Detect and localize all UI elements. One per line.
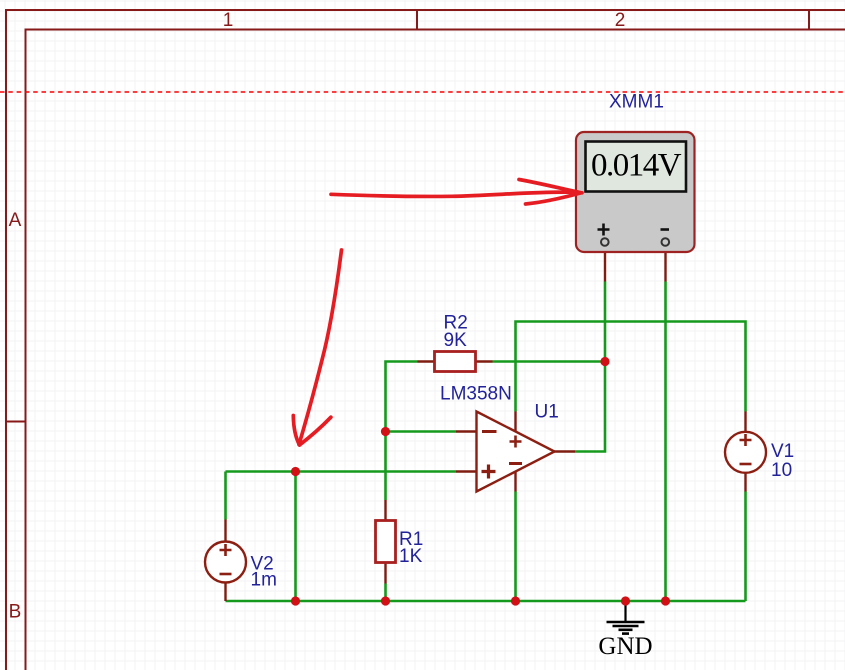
V2 minus mark bbox=[220, 573, 232, 576]
wire: bottom ground rail bbox=[226, 600, 746, 603]
wire: op-amp output up to junction bbox=[575, 362, 605, 452]
junction dots bbox=[291, 357, 670, 606]
pin: multimeter - lead bbox=[664, 246, 666, 282]
svg-text:V1: V1 bbox=[771, 441, 794, 462]
wire: inverting input horizontal bbox=[386, 430, 457, 433]
junction: non-inverting node bbox=[291, 467, 300, 476]
svg-text:1m: 1m bbox=[251, 570, 277, 591]
svg-text:LM358N: LM358N bbox=[440, 384, 512, 405]
op-amp non-inverting input mark bbox=[482, 465, 496, 479]
pin: V2 top lead bbox=[224, 520, 226, 543]
wire: R1 top vertical bbox=[384, 432, 387, 501]
wire: non-inverting input horizontal bbox=[226, 470, 457, 473]
multimeter - terminal post bbox=[662, 238, 670, 246]
annotation arrow pointing at non-inverting node bbox=[293, 250, 341, 445]
op-amp V+ polarity mark bbox=[510, 436, 522, 448]
V2 plus mark bbox=[220, 544, 232, 556]
junction: output / R2 / multimeter + bbox=[600, 357, 609, 366]
svg-text:9K: 9K bbox=[444, 330, 468, 351]
voltage source V2 body bbox=[205, 542, 246, 583]
V1 minus mark bbox=[740, 463, 752, 466]
ground symbol GND bbox=[607, 601, 645, 634]
wire: R1 bottom vertical bbox=[384, 584, 387, 602]
pin: R2 right lead bbox=[475, 360, 493, 362]
op-amp inverting input mark bbox=[482, 430, 497, 433]
pin: op-amp output lead bbox=[554, 450, 575, 452]
wire: V1 bottom to ground rail bbox=[744, 492, 747, 602]
resistor R1 bbox=[376, 521, 396, 563]
multimeter - terminal label bbox=[661, 228, 670, 231]
svg-text:10: 10 bbox=[771, 460, 792, 481]
pin: R1 top lead bbox=[384, 500, 386, 521]
svg-text:2: 2 bbox=[615, 10, 626, 31]
annotation arrow pointing at multimeter bbox=[331, 180, 582, 205]
pin: op-amp non-inverting input lead bbox=[456, 470, 477, 472]
junction: rail at R1 bbox=[381, 596, 390, 605]
wire: node A branch down to rail bbox=[294, 472, 297, 602]
pin: op-amp V- stub bbox=[514, 467, 516, 492]
svg-text:1K: 1K bbox=[399, 546, 423, 567]
wire: R2 right lead to output junction bbox=[493, 360, 606, 363]
wire: V2 top vertical bbox=[224, 472, 227, 520]
pin: R2 left lead bbox=[418, 360, 436, 362]
svg-text:0.014V: 0.014V bbox=[591, 148, 682, 184]
wire: R2 left lead to inverting node (net feedback left) bbox=[386, 362, 418, 432]
multimeter XMM1 screen bbox=[586, 142, 687, 192]
page break dotted line bbox=[0, 91, 845, 93]
junction: rail at node branch bbox=[291, 596, 300, 605]
wire: op-amp V- down to rail bbox=[514, 492, 517, 602]
svg-text:B: B bbox=[9, 602, 22, 623]
multimeter + terminal post bbox=[601, 238, 609, 246]
pin: V1 bottom lead bbox=[744, 472, 746, 492]
svg-text:U1: U1 bbox=[535, 402, 559, 423]
pin: V2 bottom lead bbox=[224, 582, 226, 602]
wire: op-amp V+ rail to V1 top bbox=[516, 322, 746, 412]
op-amp U1 body bbox=[477, 412, 555, 492]
svg-text:1: 1 bbox=[223, 10, 234, 31]
svg-text:A: A bbox=[9, 210, 22, 231]
junction: rail at multimeter - bbox=[661, 596, 670, 605]
op-amp V- polarity mark bbox=[509, 462, 522, 465]
pin: R1 bottom lead bbox=[384, 562, 386, 584]
wire: multimeter + terminal down to junction bbox=[604, 282, 607, 362]
pin: op-amp inverting input lead bbox=[456, 430, 477, 432]
GREEN WIRES bbox=[226, 282, 746, 602]
pin: V1 top lead bbox=[744, 412, 746, 433]
svg-text:XMM1: XMM1 bbox=[609, 92, 664, 113]
svg-text:GND: GND bbox=[598, 633, 652, 660]
V1 plus mark bbox=[740, 434, 752, 446]
wire: multimeter - terminal down to ground rail bbox=[664, 282, 667, 602]
junction: rail at op-amp V- bbox=[511, 596, 520, 605]
multimeter XMM1 body bbox=[576, 132, 695, 252]
pin: multimeter + lead bbox=[604, 246, 606, 282]
multimeter + terminal label bbox=[598, 224, 610, 236]
junction: rail at GND bbox=[621, 596, 630, 605]
BLUE LABELS bbox=[251, 92, 795, 591]
COMPONENT PINS (maroon) bbox=[226, 246, 746, 602]
junction: inverting node bbox=[381, 427, 390, 436]
pin: op-amp V+ stub bbox=[514, 412, 516, 432]
voltage source V1 body bbox=[725, 432, 766, 473]
resistor R2 bbox=[435, 352, 476, 372]
